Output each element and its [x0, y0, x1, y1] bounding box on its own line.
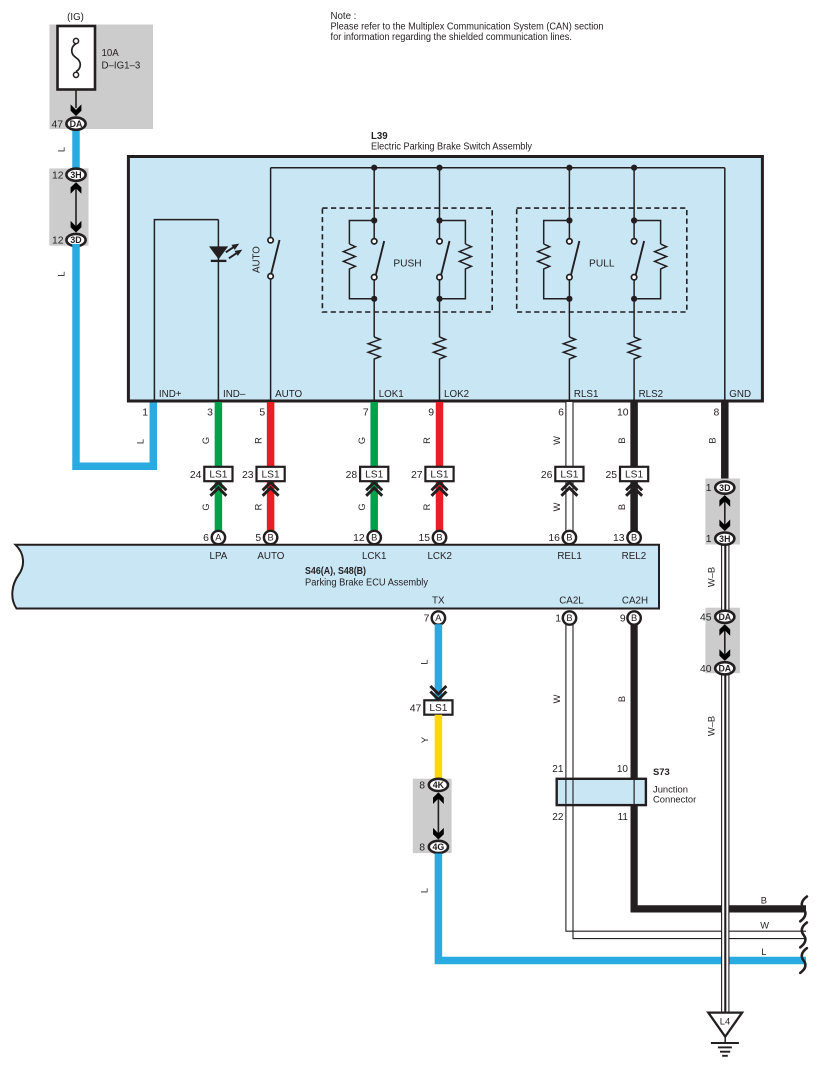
ECU box S46(A) S48(B) Parking Brake ECU Assembly	[12, 545, 659, 609]
wire R (red) pin 9 to ECU pin 15B	[436, 402, 444, 535]
svg-text:L4: L4	[720, 1016, 730, 1027]
node dot LOK2 bus	[436, 165, 442, 171]
svg-text:REL1: REL1	[557, 551, 582, 562]
wire B (black) CA2H to right edge	[634, 618, 806, 909]
LED indicator	[209, 244, 242, 261]
svg-text:21: 21	[552, 764, 564, 775]
svg-text:W–B: W–B	[707, 567, 717, 587]
ECU pin 16 B	[548, 531, 576, 544]
connector 40 DA	[700, 662, 734, 675]
svg-text:LS1: LS1	[209, 470, 227, 481]
wire L (blue) 3D to L39 pin 1	[76, 244, 153, 466]
svg-text:3: 3	[207, 408, 213, 419]
svg-text:AUTO: AUTO	[257, 551, 284, 562]
resistor RLS2 parallel	[634, 221, 667, 299]
shield connector 23 LS1	[242, 467, 285, 496]
svg-text:B: B	[371, 533, 377, 543]
wire L (blue) 4G to right edge	[438, 854, 806, 961]
svg-text:1: 1	[706, 483, 712, 494]
shield connector 26 LS1	[541, 467, 584, 496]
svg-text:Parking Brake ECU Assembly: Parking Brake ECU Assembly	[305, 577, 428, 588]
svg-text:24: 24	[190, 470, 202, 481]
ECU title	[305, 566, 428, 588]
node dot RLS2 bus	[631, 165, 637, 171]
svg-text:13: 13	[613, 533, 625, 544]
break symbol W wire	[800, 923, 807, 948]
resistor RLS1 series	[563, 337, 575, 363]
pin numbers below L39	[142, 408, 719, 419]
node dot LOK1 top	[371, 217, 377, 223]
resistor LOK1 parallel	[343, 221, 374, 299]
L39 title	[371, 131, 532, 153]
svg-text:LCK1: LCK1	[362, 551, 387, 562]
S73 pass-through wire B line	[633, 780, 635, 804]
switch RLS2	[631, 239, 644, 280]
node dot LOK2 top	[436, 217, 442, 223]
svg-text:REL2: REL2	[622, 551, 647, 562]
svg-text:40: 40	[700, 664, 712, 675]
svg-text:6: 6	[558, 408, 564, 419]
node dot RLS1 top	[566, 217, 572, 223]
svg-text:CA2L: CA2L	[559, 596, 584, 607]
wire LOK1 lower	[373, 280, 375, 337]
resistor RLS2 series	[628, 337, 640, 363]
fuse 10A D-IG1-3	[58, 26, 141, 90]
svg-text:L: L	[57, 271, 67, 276]
junction connector S73 box	[557, 779, 646, 805]
svg-text:8: 8	[714, 408, 720, 419]
svg-text:DA: DA	[718, 612, 731, 622]
svg-text:G: G	[357, 437, 367, 444]
svg-text:RLS2: RLS2	[639, 389, 664, 400]
svg-text:IND–: IND–	[223, 389, 246, 400]
wire W-B 40 DA to ground	[722, 668, 729, 1012]
svg-text:W: W	[552, 502, 562, 511]
connector 8 4K	[419, 779, 448, 792]
svg-text:B: B	[617, 504, 627, 510]
svg-text:DA: DA	[718, 664, 731, 674]
node dot RLS1 bus	[566, 165, 572, 171]
svg-text:22: 22	[552, 812, 564, 823]
ECU top pin labels	[210, 551, 647, 562]
break symbol B wire	[800, 897, 807, 922]
svg-text:LS1: LS1	[262, 470, 280, 481]
svg-text:16: 16	[548, 533, 560, 544]
wire W-B 3H to 45 DA	[722, 539, 729, 617]
svg-text:L: L	[420, 888, 430, 893]
connector block 3H/3D gray background	[49, 168, 88, 245]
svg-text:1: 1	[555, 614, 561, 625]
svg-text:9: 9	[620, 614, 626, 625]
svg-text:for information regarding the: for information regarding the shielded c…	[331, 32, 573, 43]
svg-text:4G: 4G	[433, 842, 445, 852]
svg-text:Connector: Connector	[653, 794, 696, 805]
wire RLS2 to pin 10	[633, 363, 635, 401]
svg-text:23: 23	[242, 470, 254, 481]
svg-text:B: B	[708, 437, 718, 443]
svg-text:12: 12	[353, 533, 365, 544]
arrow from fuse to connector DA	[71, 91, 82, 117]
svg-text:R: R	[253, 503, 263, 510]
svg-text:RLS1: RLS1	[574, 389, 599, 400]
wire IND+ branch	[154, 220, 218, 401]
svg-text:R: R	[253, 437, 263, 444]
switch LOK2 branch wire	[439, 168, 441, 239]
svg-text:5: 5	[255, 533, 261, 544]
ECU pin 12 B	[353, 531, 381, 544]
svg-text:3H: 3H	[719, 534, 730, 544]
node dot RLS2 bottom	[631, 296, 637, 302]
svg-text:6: 6	[203, 533, 209, 544]
svg-text:B: B	[617, 696, 627, 702]
inline double arrow 3D to 3H	[719, 495, 730, 531]
connector 12 3D	[52, 234, 86, 247]
resistor RLS1 parallel	[538, 221, 570, 299]
wire IND- branch	[217, 220, 219, 401]
wire LOK1 to pin 7	[373, 363, 375, 401]
svg-text:12: 12	[52, 170, 64, 181]
svg-text:1: 1	[142, 408, 148, 419]
S73 pass-through wire W lines	[565, 780, 567, 804]
switch LOK2	[437, 239, 450, 280]
svg-text:15: 15	[418, 533, 430, 544]
shield connector 27 LS1	[411, 467, 454, 496]
node dot RLS2 top	[631, 217, 637, 223]
svg-text:Y: Y	[420, 737, 430, 743]
svg-text:4K: 4K	[433, 780, 445, 790]
svg-text:3D: 3D	[70, 235, 81, 245]
svg-text:L: L	[136, 439, 146, 444]
ECU pin 6 A	[203, 531, 225, 544]
svg-text:LS1: LS1	[430, 470, 448, 481]
svg-text:DA: DA	[70, 119, 83, 129]
svg-text:11: 11	[618, 812, 629, 823]
internal top bus wire	[271, 167, 725, 169]
node dot LOK2 bottom	[436, 296, 442, 302]
svg-text:LS1: LS1	[429, 703, 447, 714]
svg-text:12: 12	[52, 236, 64, 247]
svg-text:LOK1: LOK1	[379, 389, 404, 400]
svg-text:25: 25	[606, 470, 618, 481]
shield connector 28 LS1	[346, 467, 389, 496]
connector 1 3D	[706, 482, 735, 495]
svg-text:5: 5	[259, 408, 265, 419]
svg-text:7: 7	[424, 614, 430, 625]
svg-text:AUTO: AUTO	[251, 246, 262, 273]
switch RLS1	[567, 239, 580, 280]
svg-text:PUSH: PUSH	[393, 259, 421, 270]
svg-text:B: B	[631, 613, 637, 623]
svg-text:B: B	[566, 533, 572, 543]
svg-text:TX: TX	[432, 596, 445, 607]
svg-text:LS1: LS1	[560, 470, 578, 481]
svg-text:PULL: PULL	[589, 259, 615, 270]
svg-text:47: 47	[410, 703, 422, 714]
svg-text:10: 10	[617, 764, 629, 775]
svg-text:10: 10	[617, 408, 629, 419]
wire RLS2 lower	[633, 280, 635, 337]
svg-text:7: 7	[363, 408, 369, 419]
connector block 3D/3H gray background	[705, 479, 740, 545]
switch LOK1	[372, 239, 385, 280]
inline double arrow 4K to 4G	[433, 792, 444, 839]
svg-text:W: W	[760, 921, 769, 931]
svg-text:IND+: IND+	[159, 389, 182, 400]
resistor LOK2 parallel	[440, 221, 472, 299]
connector 8 4G	[419, 841, 448, 854]
break symbol L wire	[800, 948, 807, 973]
svg-text:GND: GND	[729, 389, 751, 400]
svg-text:26: 26	[541, 470, 553, 481]
wire G (green) pin 3 to ECU pin 6A	[215, 402, 223, 535]
svg-text:L: L	[761, 947, 766, 957]
svg-text:LS1: LS1	[625, 470, 643, 481]
svg-text:L39: L39	[371, 131, 388, 142]
connector 12 3H	[52, 169, 86, 182]
wire W (white) pin 6 to ECU pin 16B	[566, 402, 573, 535]
svg-text:LS1: LS1	[365, 470, 383, 481]
svg-text:28: 28	[346, 470, 358, 481]
connector 45 DA	[700, 611, 734, 624]
inline double arrow 3H to 3D	[71, 182, 82, 232]
svg-text:LPA: LPA	[210, 551, 228, 562]
svg-text:AUTO: AUTO	[275, 389, 302, 400]
ECU pin 7 A TX	[424, 611, 445, 624]
svg-text:27: 27	[411, 470, 423, 481]
inline double arrow DA to DA	[719, 624, 730, 661]
fuse block gray background	[50, 25, 154, 130]
svg-text:3H: 3H	[70, 170, 81, 180]
svg-text:L: L	[57, 147, 67, 152]
shield connector 24 LS1	[190, 467, 233, 496]
svg-text:8: 8	[419, 781, 425, 792]
shield connector 25 LS1	[606, 467, 649, 496]
svg-text:W–B: W–B	[707, 716, 717, 736]
internal GND wire	[724, 168, 726, 401]
svg-text:Please refer to the Multiplex: Please refer to the Multiplex Communicat…	[331, 22, 604, 33]
connector block DA/DA gray background	[705, 608, 740, 674]
svg-text:G: G	[201, 437, 211, 444]
wire LOK2 to pin 9	[439, 363, 441, 401]
svg-text:G: G	[201, 503, 211, 510]
wire G (green) pin 7 to ECU pin 12B	[370, 402, 378, 535]
node dot LOK1 bottom	[371, 296, 377, 302]
switch AUTO	[251, 168, 279, 401]
wire W (white) CA2L to right edge	[566, 618, 806, 939]
PUSH dashed group box	[322, 208, 492, 312]
wire L (blue) TX to 47 LS1	[435, 624, 443, 701]
svg-text:B: B	[631, 533, 637, 543]
svg-text:LCK2: LCK2	[427, 551, 452, 562]
ground L4	[708, 1013, 742, 1056]
svg-text:A: A	[435, 613, 442, 623]
svg-text:LOK2: LOK2	[444, 389, 469, 400]
wire B (black) pin 10 to ECU pin 13B	[630, 402, 638, 535]
svg-text:W: W	[552, 694, 562, 703]
svg-text:D–IG1–3: D–IG1–3	[102, 61, 141, 72]
wire B (black) pin 8 GND to connector 3D	[721, 402, 729, 488]
wire RLS1 to pin 6	[568, 363, 570, 401]
svg-text:45: 45	[700, 612, 712, 623]
svg-text:G: G	[357, 503, 367, 510]
wire L (blue) DA to 3H	[72, 124, 80, 175]
svg-text:B: B	[761, 896, 767, 906]
switch RLS2 branch wire	[633, 168, 635, 239]
svg-text:B: B	[566, 613, 572, 623]
wire Y (yellow) 47 LS1 to 4K	[435, 715, 443, 785]
svg-text:B: B	[267, 533, 273, 543]
svg-text:CA2H: CA2H	[622, 596, 648, 607]
L39 box Electric Parking Brake Switch Assembly	[128, 157, 762, 402]
svg-text:S73: S73	[653, 766, 670, 777]
wire R (red) pin 5 to ECU pin 5B	[267, 402, 275, 535]
shield connector 47 LS1	[410, 700, 453, 714]
switch RLS1 branch wire	[568, 168, 570, 239]
node dot RLS1 bottom	[566, 296, 572, 302]
PULL dashed group box	[517, 208, 687, 312]
ECU pin 1 B CA2L	[555, 611, 576, 624]
ECU pin 13 B	[613, 531, 641, 544]
svg-text:R: R	[422, 503, 432, 510]
svg-text:1: 1	[706, 534, 712, 545]
resistor LOK1 series	[368, 337, 380, 363]
note text block	[331, 11, 604, 43]
switch LOK1 branch wire	[373, 168, 375, 239]
connector block 4K/4G gray background	[413, 779, 452, 853]
svg-text:B: B	[617, 437, 627, 443]
svg-text:(IG): (IG)	[67, 12, 84, 23]
svg-text:Note :: Note :	[331, 11, 357, 22]
svg-text:L: L	[420, 659, 430, 664]
pin cell labels inside L39	[159, 389, 751, 400]
svg-text:3D: 3D	[719, 483, 730, 493]
svg-text:R: R	[422, 437, 432, 444]
wire LOK2 lower	[439, 280, 441, 337]
wire RLS1 lower	[568, 280, 570, 337]
svg-text:S46(A), S48(B): S46(A), S48(B)	[305, 566, 366, 577]
ECU pin 9 B CA2H	[620, 611, 641, 624]
connector 1 3H	[706, 533, 735, 546]
S73 labels	[653, 766, 696, 804]
svg-text:9: 9	[428, 408, 434, 419]
chevron into 47 LS1	[430, 686, 446, 700]
svg-text:A: A	[215, 533, 222, 543]
connector 47 DA	[51, 118, 85, 131]
svg-text:B: B	[436, 533, 442, 543]
svg-text:47: 47	[51, 119, 63, 130]
svg-text:8: 8	[419, 843, 425, 854]
ECU pin 15 B	[418, 531, 446, 544]
resistor LOK2 series	[434, 337, 446, 363]
node dot LOK1 bus	[371, 165, 377, 171]
ECU pin 5 B	[255, 531, 277, 544]
svg-text:10A: 10A	[102, 48, 120, 59]
svg-text:W: W	[552, 436, 562, 445]
svg-text:Electric Parking Brake Switch: Electric Parking Brake Switch Assembly	[371, 142, 532, 153]
ECU bottom pin labels	[432, 596, 648, 607]
